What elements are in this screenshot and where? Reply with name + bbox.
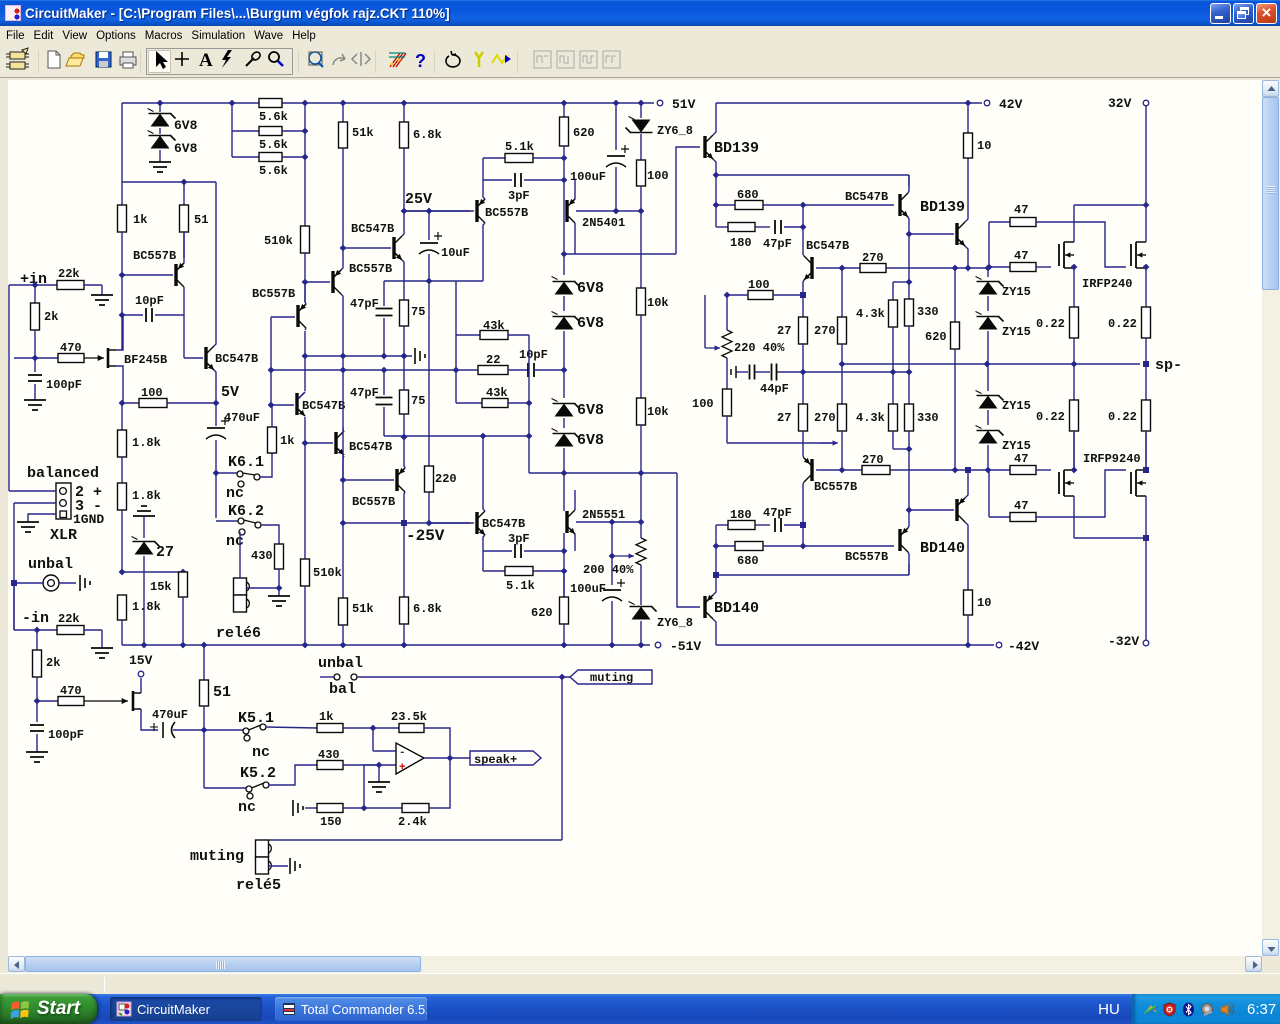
wire -42V rail (716, 644, 994, 646)
svg-text:47: 47 (1014, 203, 1028, 217)
svg-text:-32V: -32V (1108, 634, 1139, 649)
svg-text:27: 27 (777, 411, 791, 425)
svg-text:BD139: BD139 (920, 199, 965, 216)
svg-text:100: 100 (748, 278, 770, 292)
JFET muting driver (84, 700, 128, 702)
svg-text:330: 330 (917, 305, 939, 319)
capacitor 47pF miller2 (383, 370, 385, 395)
svg-text:unbal: unbal (318, 655, 363, 672)
wire 510k column (304, 103, 306, 226)
resistor 51 (183, 182, 185, 205)
resistor 430 (275, 544, 284, 569)
svg-text:6V8: 6V8 (174, 118, 198, 133)
resistor 1k (121, 182, 123, 205)
wire +in to XLR (8, 285, 10, 491)
ground (91, 295, 113, 305)
wire 436 node (384, 435, 529, 437)
svg-text:22: 22 (486, 353, 500, 367)
svg-text:4.3k: 4.3k (856, 307, 885, 321)
wire +51V top rail (122, 102, 654, 104)
svg-text:1k: 1k (280, 434, 294, 448)
wire vas emitter (384, 280, 456, 282)
svg-text:-25V: -25V (406, 527, 445, 545)
svg-text:1.8k: 1.8k (132, 489, 161, 503)
svg-text:BC557B: BC557B (133, 249, 176, 263)
ground (24, 400, 46, 410)
svg-text:0.22: 0.22 (1036, 317, 1065, 331)
svg-text:22k: 22k (58, 267, 80, 281)
resistor 100 (122, 402, 139, 404)
capacitor 10uF (428, 211, 430, 240)
wire mid node (305, 355, 412, 357)
capacitor 3pF lower (483, 550, 512, 552)
svg-text:270: 270 (814, 411, 836, 425)
resistor 10k (640, 211, 642, 288)
svg-text:nc: nc (226, 533, 244, 550)
group 2 (309, 52, 321, 64)
wire K5.2 to opamp+ (268, 765, 317, 785)
resistor 0.22 a (1073, 281, 1075, 307)
svg-text:100: 100 (647, 169, 669, 183)
svg-text:-42V: -42V (1008, 639, 1039, 654)
flag speak+ (470, 751, 541, 765)
wire bias rail (820, 267, 988, 269)
svg-text:220: 220 (435, 472, 457, 486)
svg-text:1.8k: 1.8k (132, 600, 161, 614)
resistor 22 (455, 335, 457, 403)
resistor 510k lower (301, 559, 310, 586)
svg-text:51k: 51k (352, 126, 374, 140)
svg-text:47pF: 47pF (350, 297, 379, 311)
svg-text:6.8k: 6.8k (413, 602, 442, 616)
zener 6V8 pair (159, 103, 161, 112)
resistor 47 g2 (986, 264, 993, 271)
resistor 47 g3 (988, 469, 1010, 471)
lightning (222, 50, 232, 68)
ground cap unbal (80, 575, 90, 591)
zener ZY6_8 lower (632, 607, 651, 620)
terminal -42V (996, 642, 1002, 648)
resistor 0.22 b (1145, 281, 1147, 307)
svg-text:K6.2: K6.2 (228, 503, 264, 520)
op-amp U1 (396, 743, 424, 774)
svg-text:3pF: 3pF (508, 532, 530, 546)
svg-text:ZY15: ZY15 (1002, 399, 1031, 413)
svg-text:BC547B: BC547B (845, 190, 888, 204)
svg-text:43k: 43k (486, 386, 508, 400)
wire K6 to 1k (260, 453, 272, 477)
svg-text:22k: 22k (58, 612, 80, 626)
resistor 330 upper (908, 234, 910, 282)
wire driver emitter (713, 172, 720, 179)
svg-text:0.22: 0.22 (1036, 410, 1065, 424)
svg-text:620: 620 (925, 330, 947, 344)
resistor 470 (35, 357, 58, 359)
svg-text:BC547B: BC547B (482, 517, 525, 531)
svg-text:-: - (399, 747, 406, 759)
terminal 32V (1143, 100, 1149, 106)
terminal 42V (984, 100, 990, 106)
svg-text:51: 51 (213, 684, 231, 701)
resistor 180 (716, 226, 728, 228)
svg-text:relé5: relé5 (236, 877, 281, 894)
capacitor 44pF (736, 371, 748, 373)
svg-text:42V: 42V (999, 97, 1023, 112)
svg-text:muting: muting (590, 671, 633, 685)
resistor 620 lower (563, 571, 565, 597)
svg-text:100uF: 100uF (570, 582, 606, 596)
svg-text:47pF: 47pF (350, 386, 379, 400)
svg-text:180: 180 (730, 236, 752, 250)
svg-text:75: 75 (411, 394, 425, 408)
resistor 5.6k ladder (231, 103, 233, 157)
wire fb (363, 765, 365, 808)
svg-text:620: 620 (573, 126, 595, 140)
resistor 1k tail (268, 427, 277, 453)
svg-text:1.8k: 1.8k (132, 436, 161, 450)
svg-text:200 40%: 200 40% (583, 563, 634, 577)
wire XLR pin1 gnd (28, 514, 56, 522)
zener 6V8 a (563, 254, 565, 275)
svg-text:bal: bal (329, 681, 356, 698)
resistor 620 top (563, 103, 565, 117)
svg-text:47: 47 (1014, 499, 1028, 513)
svg-text:2N5551: 2N5551 (582, 508, 625, 522)
svg-text:27: 27 (777, 324, 791, 338)
resistor 27 lower (802, 372, 804, 404)
ground rele6 (276, 585, 283, 592)
ground rele5 (269, 865, 289, 867)
svg-text:5.1k: 5.1k (506, 579, 535, 593)
terminal 51V (657, 100, 663, 106)
resistor 2.4k (402, 804, 429, 813)
resistor 5.1k lower (482, 551, 484, 571)
svg-text:2.4k: 2.4k (398, 815, 427, 829)
svg-text:5.6k: 5.6k (259, 164, 288, 178)
resistor 620 mid (954, 268, 956, 322)
wire muting down (561, 677, 563, 840)
svg-text:BC547B: BC547B (806, 239, 849, 253)
wire 43k right column (528, 335, 530, 473)
capacitor 100uF lower (611, 522, 613, 556)
terminal -51V (655, 642, 661, 648)
zener ZY15 c (987, 364, 989, 391)
node -in gate (34, 698, 41, 705)
svg-text:XLR: XLR (50, 527, 77, 544)
wire 47 gate top (988, 222, 990, 264)
resistor 510k (301, 226, 310, 253)
zener ZY6_8 top (640, 644, 642, 646)
terminal 15V (140, 678, 142, 693)
resistor 270 top h (860, 264, 886, 273)
svg-text:430: 430 (251, 549, 273, 563)
svg-text:470: 470 (60, 341, 82, 355)
svg-text:51k: 51k (352, 602, 374, 616)
wire (121, 315, 123, 350)
svg-text:ZY6_8: ZY6_8 (657, 124, 693, 138)
svg-text:balanced: balanced (27, 465, 99, 482)
capacitor 47pF miller (383, 281, 385, 306)
capacitor 10pF 2 (527, 363, 529, 377)
wire unbal down (13, 583, 15, 630)
svg-text:270: 270 (862, 453, 884, 467)
resistor 43k (455, 281, 457, 335)
svg-text:10k: 10k (647, 405, 669, 419)
resistor 27 upper (802, 295, 804, 317)
svg-text:0.22: 0.22 (1108, 410, 1137, 424)
plus (175, 52, 189, 66)
svg-text:BC547B: BC547B (302, 399, 345, 413)
capacitor 10pF (122, 314, 143, 316)
svg-text:relé6: relé6 (216, 625, 261, 642)
wire sp- rail (842, 363, 1140, 365)
svg-text:180: 180 (730, 508, 752, 522)
resistor 22k (57, 626, 84, 635)
svg-text:27: 27 (156, 544, 174, 561)
zener ZY15 b (979, 317, 998, 330)
resistor 5.1k (483, 157, 505, 159)
svg-text:470: 470 (60, 684, 82, 698)
svg-text:15k: 15k (150, 580, 172, 594)
svg-text:430: 430 (318, 748, 340, 762)
svg-text:BC547B: BC547B (351, 222, 394, 236)
wire driver emitter lower (713, 572, 719, 578)
svg-text:47: 47 (1014, 452, 1028, 466)
svg-text:10pF: 10pF (135, 294, 164, 308)
svg-text:2k: 2k (46, 656, 60, 670)
svg-text:220 40%: 220 40% (734, 341, 785, 355)
svg-text:10k: 10k (647, 296, 669, 310)
resistor 430 opamp (317, 761, 343, 770)
svg-text:10: 10 (977, 139, 991, 153)
svg-text:BF245B: BF245B (124, 353, 167, 367)
resistor 680 (716, 204, 735, 206)
zener ZY15 d (979, 431, 998, 444)
resistor 47 g1 (989, 221, 1010, 223)
new (48, 51, 60, 68)
resistor 100 pot (724, 292, 731, 299)
JFET BF245B (84, 357, 104, 359)
capacitor 100uF top (615, 103, 617, 150)
svg-text:BC557B: BC557B (485, 206, 528, 220)
rotate (446, 51, 460, 67)
resistor 220 (425, 466, 434, 492)
svg-text:150: 150 (320, 815, 342, 829)
wire 32V drain rail (1074, 204, 1146, 206)
resistor 51k (339, 122, 348, 148)
resistor 51 muting (203, 645, 205, 680)
svg-text:BC547B: BC547B (349, 440, 392, 454)
svg-text:330: 330 (917, 411, 939, 425)
svg-text:BD140: BD140 (714, 600, 759, 617)
svg-text:BC557B: BC557B (349, 262, 392, 276)
resistor 10 (967, 103, 969, 133)
capacitor 470uF out (141, 709, 158, 730)
svg-text:+: + (399, 762, 406, 774)
svg-text:100: 100 (141, 386, 163, 400)
wire bottom rail -51V left (122, 644, 650, 646)
resistor 43k lower (456, 402, 482, 404)
MOSFET IRFP9240 b (1130, 472, 1132, 494)
svg-text:ZY15: ZY15 (1002, 325, 1031, 339)
resistor 0.22 d (1145, 364, 1147, 400)
svg-text:6V8: 6V8 (577, 402, 604, 419)
multimeter (390, 53, 406, 67)
capacitor 470uF 5V (215, 403, 217, 426)
svg-text:BC557B: BC557B (252, 287, 295, 301)
svg-text:100: 100 (692, 397, 714, 411)
MOSFET IRFP240 b (1130, 244, 1132, 266)
resistor 680 lower (716, 545, 735, 547)
svg-text:1k: 1k (319, 710, 333, 724)
resistor 4.3k lower (892, 372, 894, 404)
svg-text:510k: 510k (264, 234, 293, 248)
resistor 6.8k (403, 103, 405, 122)
resistor 6.8k lower (403, 437, 405, 461)
svg-text:3pF: 3pF (508, 189, 530, 203)
svg-text:6V8: 6V8 (577, 432, 604, 449)
resistor 75 lower (400, 390, 409, 414)
svg-text:470uF: 470uF (152, 708, 188, 722)
svg-text:75: 75 (411, 305, 425, 319)
open (71, 53, 84, 58)
MOSFET IRFP240 a (1058, 244, 1060, 266)
svg-text:25V: 25V (405, 191, 432, 208)
svg-text:10pF: 10pF (519, 348, 548, 362)
svg-text:44pF: 44pF (760, 382, 789, 396)
svg-text:15V: 15V (129, 653, 153, 668)
resistor 1.8k (121, 457, 123, 483)
magnifier (269, 52, 279, 62)
capacitor 100pF (36, 701, 38, 722)
svg-text:ZY6_8: ZY6_8 (657, 616, 693, 630)
svg-text:100pF: 100pF (46, 378, 82, 392)
resistor 23.5k (399, 724, 424, 733)
wire pot to bias (727, 442, 836, 444)
svg-text:270: 270 (862, 251, 884, 265)
capacitor 3pF (483, 179, 512, 181)
svg-text:BD139: BD139 (714, 140, 759, 157)
svg-text:32V: 32V (1108, 96, 1132, 111)
svg-text:unbal: unbal (28, 556, 73, 573)
svg-text:K5.1: K5.1 (238, 710, 274, 727)
svg-text:620: 620 (531, 606, 553, 620)
svg-text:270: 270 (814, 324, 836, 338)
svg-text:speak+: speak+ (474, 753, 517, 767)
svg-text:43k: 43k (483, 319, 505, 333)
svg-text:100pF: 100pF (48, 728, 84, 742)
zener ZY15 a (987, 268, 989, 277)
svg-text:4.3k: 4.3k (856, 411, 885, 425)
node speak out (424, 757, 470, 759)
resistor 330 lower (908, 372, 910, 404)
MOSFET IRFP9240 a (1058, 472, 1060, 494)
svg-text:6.8k: 6.8k (413, 128, 442, 142)
svg-text:BC557B: BC557B (845, 550, 888, 564)
svg-text:nc: nc (252, 744, 270, 761)
svg-text:ZY15: ZY15 (1002, 285, 1031, 299)
wire rail node (121, 103, 123, 182)
svg-text:sp-: sp- (1155, 357, 1182, 374)
zener 6V8 b (555, 317, 574, 330)
ground XLR (17, 522, 39, 532)
svg-text:51: 51 (194, 213, 208, 227)
svg-text:IRFP240: IRFP240 (1082, 277, 1132, 291)
greyed scope buttons (534, 51, 620, 68)
svg-text:K6.1: K6.1 (228, 454, 264, 471)
ground (26, 752, 48, 762)
relay coil rele6 (234, 578, 247, 595)
svg-text:6V8: 6V8 (577, 280, 604, 297)
save (96, 52, 111, 67)
wrench Y (475, 52, 483, 67)
svg-text:BC557B: BC557B (352, 495, 395, 509)
resistor 75 (400, 300, 409, 326)
ground opamp (378, 765, 380, 782)
wire lower vas node (561, 470, 568, 477)
svg-text:ZY15: ZY15 (1002, 439, 1031, 453)
wire vas out (563, 211, 565, 254)
print (120, 57, 136, 65)
wire K6.2 to 430 (261, 525, 279, 544)
svg-text:47pF: 47pF (763, 237, 792, 251)
chip icon (6, 48, 29, 69)
wire fb node (271, 369, 456, 371)
ground (149, 162, 171, 172)
zener 6V8 c (563, 370, 565, 398)
probe (246, 58, 254, 66)
svg-text:-in: -in (22, 610, 49, 627)
wire bias rail lower (820, 469, 988, 471)
svg-text:BC547B: BC547B (215, 352, 258, 366)
connector RCA unbal (43, 575, 59, 591)
resistor 0.22 c (1073, 364, 1075, 400)
svg-text:47: 47 (1014, 249, 1028, 263)
resistor 100 vert (723, 389, 732, 416)
svg-text:10uF: 10uF (441, 246, 470, 260)
resistor 1k opamp (266, 727, 317, 728)
resistor 10k lower (640, 315, 642, 398)
ground cap mid (415, 348, 425, 364)
svg-text:2k: 2k (44, 310, 58, 324)
svg-text:1k: 1k (133, 213, 147, 227)
resistor 15k (182, 571, 184, 573)
svg-text:5.1k: 5.1k (505, 140, 534, 154)
resistor 10 lower (964, 590, 973, 615)
svg-text:1GND: 1GND (73, 512, 104, 527)
svg-text:47pF: 47pF (763, 506, 792, 520)
capacitor 47pF drv (774, 220, 776, 234)
resistor 270 h (862, 466, 890, 475)
wire 42V rail right (716, 102, 982, 104)
svg-text:-51V: -51V (670, 639, 701, 654)
svg-text:510k: 510k (313, 566, 342, 580)
wire 5V rail lower (119, 569, 126, 576)
svg-text:470uF: 470uF (224, 411, 260, 425)
ground (91, 648, 113, 658)
transistor BC557B cascode low (296, 305, 299, 327)
resistor 270 upper (841, 268, 843, 317)
svg-text:0.22: 0.22 (1108, 317, 1137, 331)
resistor 22k (57, 281, 84, 290)
svg-text:680: 680 (737, 188, 759, 202)
svg-text:100uF: 100uF (570, 170, 606, 184)
wire XLR pin2 (9, 490, 56, 492)
svg-text:51V: 51V (672, 97, 696, 112)
svg-text:muting: muting (190, 848, 244, 865)
svg-text:IRFP9240: IRFP9240 (1083, 452, 1141, 466)
resistor 51k lower (339, 598, 348, 625)
